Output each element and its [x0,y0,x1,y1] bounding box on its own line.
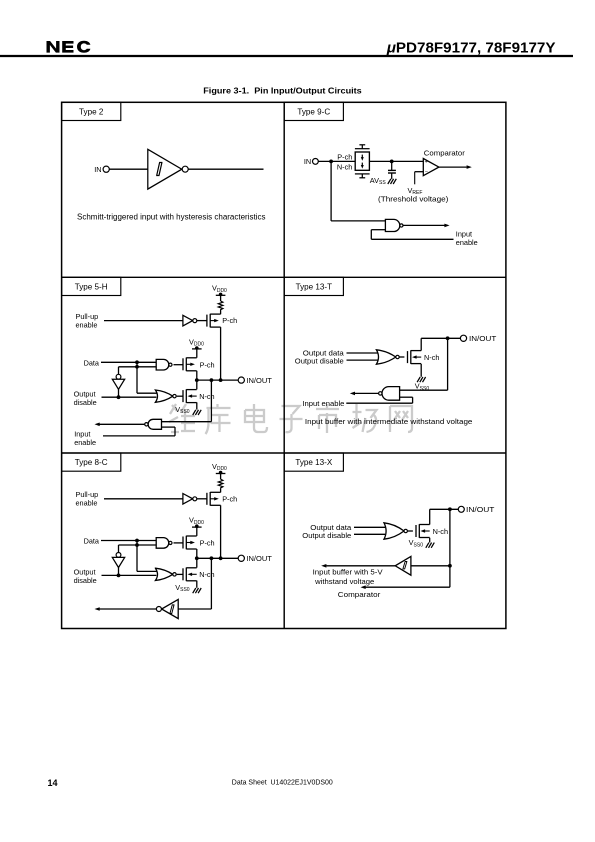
svg-text:Schmitt-triggered input with h: Schmitt-triggered input with hysteresis … [77,213,266,222]
svg-text:enable: enable [74,438,96,447]
svg-text:Type 2: Type 2 [79,107,104,116]
schmitt inverter U5 (8-C) [162,599,179,618]
wire NOR to gate (13-X) [408,530,413,532]
svg-text:μPD78F9177, 78F9177Y: μPD78F9177, 78F9177Y [386,39,556,56]
junction IN/OUT a (5-H) [195,378,199,382]
wire N-ch drain up (8-C) [196,558,198,567]
svg-text:AVSS: AVSS [370,176,387,186]
wire Data branch down (5-H) [136,362,138,393]
svg-text:P-ch: P-ch [200,539,215,548]
svg-text:Input buffer with intermediate: Input buffer with intermediate withstand… [305,417,473,426]
wire N-ch drain up (5-H) [196,380,198,389]
junction IN/OUT b (8-C) [210,556,214,560]
transistor N-ch (13-X) [416,524,430,538]
table column divider [283,102,285,628]
resistor R1 (5-H) [218,301,223,311]
ground VSS0 (5-H) [193,410,202,415]
wire VDD0 to P-ch (5-H) [196,349,198,358]
wire NOR upper input (8-C) [137,570,157,572]
wire inverter-out to NAND (8-C) [119,544,157,546]
figure table outer border [62,102,506,628]
junction Data (5-H) [135,360,139,364]
schmitt inverter U1 (Type 2) [148,149,182,189]
svg-text:P-ch: P-ch [337,152,352,161]
nand gate U2 enable (13-T) [382,387,400,401]
wire comparator input (13-X) [411,565,450,567]
transistor N-ch (13-T) [408,350,422,364]
transistor P-ch data (5-H) [183,358,197,372]
svg-text:Type 8-C: Type 8-C [75,458,108,467]
svg-text:Comparator: Comparator [424,148,466,157]
wire IN/OUT line (13-X) [430,508,459,510]
transistor N-ch (5-H) [183,389,197,403]
svg-text:IN: IN [94,165,101,174]
wire NAND output (13-T) [355,392,379,394]
junction Data (8-C) [135,539,139,543]
wire resistor to P-ch (5-H) [220,311,222,315]
wire IN/OUT branch down (13-T) [447,338,449,390]
ground (13-T) [417,377,426,382]
svg-text:P-ch: P-ch [200,360,215,369]
wire VDD0 to P-ch (8-C) [196,527,198,536]
wire NAND output [403,224,445,226]
capacitor C1 [388,161,396,179]
resistor R1 (8-C) [218,479,223,489]
wire comparator output [439,166,467,168]
gate symbol below switch box [355,174,370,178]
svg-text:N-ch: N-ch [199,570,214,579]
wire VREF input [415,171,424,173]
wire IN/OUT branch down (13-X) [449,509,451,587]
wire NAND out to gate (8-C) [174,542,184,544]
svg-text:Type 9-C: Type 9-C [297,107,330,116]
ground VSS0 (8-C) [193,588,202,593]
svg-text:(Threshold voltage): (Threshold voltage) [378,195,449,204]
junction IN/OUT c (5-H) [219,378,223,382]
wire inverter-out to NAND (5-H) [119,366,157,368]
inverter U1 (8-C) [183,494,193,505]
svg-text:14: 14 [48,778,58,788]
junction on IN line [329,160,333,164]
svg-text:Data: Data [84,537,100,546]
gate symbol above switch box [355,145,370,149]
cell label box Type 5-H [62,277,121,295]
junction comparator input (13-X) [448,564,452,568]
junction IN/OUT b (5-H) [210,378,214,382]
svg-text:disable: disable [74,398,97,407]
svg-text:Type 13-X: Type 13-X [295,458,332,467]
NEC logo [47,41,91,53]
comparator U2 schmitt (13-X) [395,556,411,575]
svg-text:Input buffer with 5-V: Input buffer with 5-V [313,568,383,577]
svg-text:IN/OUT: IN/OUT [469,334,497,343]
VDD0 terminal pull-up (5-H) [216,293,226,297]
svg-text:Figure 3-1. Pin Input/Output: Figure 3-1. Pin Input/Output Circuits [203,85,362,95]
nor gate U4 (8-C) [155,568,172,580]
wire output disable (13-T) [347,359,378,361]
svg-text:IN/OUT: IN/OUT [466,505,495,514]
wire NOR out to gate (8-C) [177,573,183,575]
node IN/OUT (8-C) [238,555,244,561]
wire IN/OUT branch down (8-C) [210,558,212,609]
junction IN/OUT (13-X) [448,507,452,511]
svg-text:Comparator: Comparator [338,590,381,599]
svg-text:VDD0: VDD0 [212,462,227,472]
junction inverter branch (8-C) [135,543,139,547]
wire NAND5 output (5-H) [100,423,145,425]
svg-text:Output disable: Output disable [295,357,344,366]
nand gate U2 (5-H) [156,359,169,370]
pull-up transistor P-ch (8-C) [207,492,221,506]
wire source to ground (13-X) [429,538,431,543]
svg-text:VDD0: VDD0 [189,338,204,348]
VDD0 terminal data (8-C) [192,524,202,528]
svg-text:disable: disable [74,576,97,585]
wire IN/OUT line (8-C) [197,557,238,559]
svg-text:Data Sheet U14022EJ1V0DS00: Data Sheet U14022EJ1V0DS00 [232,780,333,787]
nand gate U3 (Type 9-C) [385,219,399,231]
svg-text:P-ch: P-ch [222,494,237,503]
svg-text:Input enable: Input enable [302,399,344,408]
svg-text:VDD0: VDD0 [189,516,204,526]
svg-text:N-ch: N-ch [337,162,352,171]
inverter U1 (5-H) [183,315,193,326]
junction output disable (5-H) [117,395,121,399]
svg-text:withstand voltage: withstand voltage [314,577,374,586]
node IN/OUT (13-T) [460,335,466,341]
pull-up transistor P-ch (5-H) [207,314,221,328]
table row divider 1 [62,276,506,278]
svg-text:enable: enable [76,320,98,329]
wire drain up (13-X) [429,509,431,524]
svg-text:IN: IN [304,157,311,166]
inverter U3 vertical (5-H) [116,374,121,379]
wire branch to NAND [331,220,385,222]
cell label box Type 8-C [62,453,121,471]
wire IN to inverter [109,168,148,170]
wire to schmitt input (8-C) [178,608,211,610]
wire IN/OUT line (13-T) [421,337,460,339]
analog switch box Q1 P-ch/N-ch [355,152,369,170]
svg-text:IN/OUT: IN/OUT [246,554,272,563]
wire source to ground (13-T) [420,364,422,377]
wire output disable (13-X) [354,533,385,535]
wire Data branch down (8-C) [136,541,138,572]
wire NAND out to gate (5-H) [174,364,184,366]
wire pull-up enable (8-C) [104,498,183,500]
cell label box Type 13-T [284,277,343,295]
transistor P-ch data (8-C) [183,536,197,550]
wire output data (13-X) [354,526,385,528]
junction inverter branch (5-H) [135,365,139,369]
wire IN/OUT line (5-H) [197,379,238,381]
wire inverter to gate (8-C) [197,498,207,500]
svg-text:VSS0: VSS0 [409,538,424,548]
svg-text:IN/OUT: IN/OUT [246,376,272,385]
wire P-ch drain down (5-H) [196,371,198,380]
wire P-ch drain down (8-C) [196,549,198,558]
node IN/OUT (5-H) [238,377,244,383]
wire VDD0 to resistor (5-H) [220,295,222,301]
wire NAND lower input (13-T) [400,396,413,398]
wire NAND5 lower input (5-H) [162,426,176,428]
junction at capacitor [390,160,394,164]
junction IN/OUT (13-T) [446,336,450,340]
VDD0 terminal data (5-H) [192,346,202,350]
svg-text:enable: enable [76,499,98,508]
svg-text:Type 13-T: Type 13-T [296,282,332,291]
wire to NAND top input (13-T) [400,389,448,391]
wire IN/OUT branch down (5-H) [210,380,212,422]
nand gate U5 enable (5-H) [148,419,161,429]
svg-text:−: − [425,169,428,175]
nor gate U1 (13-X) [384,523,404,539]
svg-text:Output disable: Output disable [302,531,351,540]
svg-text:N-ch: N-ch [433,527,448,536]
junction output disable (8-C) [117,574,121,578]
comparator U2 [423,159,439,176]
wire output disable (5-H) [102,396,157,398]
transistor N-ch (8-C) [183,568,197,582]
cell label box Type 13-X [284,453,343,471]
wire Data (5-H) [101,361,156,363]
wire bottom return (13-X) [366,586,450,588]
wire N-ch source to ground (8-C) [196,581,198,588]
wire pull-up enable (5-H) [104,320,183,322]
ground AVSS [388,179,397,184]
junction IN/OUT c (8-C) [219,556,223,560]
wire IN branch down [330,161,332,221]
wire NOR to gate (13-T) [399,356,404,358]
table row divider 2 [62,452,506,454]
cell label box Type 9-C [284,102,343,120]
ground (13-X) [426,543,435,548]
svg-text:+: + [425,160,428,166]
wire output disable (8-C) [102,574,157,576]
wire pull-up drain down (8-C) [220,505,222,558]
wire VDD0 to resistor (8-C) [220,474,222,480]
wire inverter to output-disable line (8-C) [118,568,120,576]
wire inverter output [188,168,263,170]
wire resistor to P-ch (8-C) [220,489,222,493]
wire switch box to comparator [369,160,423,162]
header rule [0,55,573,57]
wire inverter to gate (5-H) [197,320,207,322]
nor gate U4 (5-H) [155,390,172,402]
svg-text:Type 5-H: Type 5-H [75,282,108,291]
wire output data (13-T) [347,352,378,354]
node IN/OUT (13-X) [458,506,464,512]
wire Data (8-C) [101,540,156,542]
svg-text:P-ch: P-ch [222,316,237,325]
wire NOR out to gate (5-H) [177,395,183,397]
wire N-ch source to ground (5-H) [196,402,198,409]
wire comparator output (13-X) [326,565,395,567]
svg-text:N-ch: N-ch [199,392,214,401]
wire schmitt output (8-C) [100,608,157,610]
svg-text:N-ch: N-ch [424,353,439,362]
svg-text:VDD0: VDD0 [212,284,227,294]
svg-text:enable: enable [456,238,478,247]
VDD0 terminal pull-up (8-C) [216,471,226,475]
junction IN/OUT a (8-C) [195,556,199,560]
nand gate U2 (8-C) [156,538,169,549]
wire IN to switch box [318,160,355,162]
svg-text:VSS0: VSS0 [175,583,190,593]
svg-text:VSS0: VSS0 [175,405,190,415]
svg-text:Data: Data [84,358,100,367]
watermark text [169,404,412,434]
wire drain up (13-T) [420,338,422,350]
wire inverter to output-disable line (5-H) [118,389,120,397]
cell label box Type 2 [62,102,121,120]
wire NAND lower input [371,229,385,231]
wire to NAND top input (5-H) [162,421,212,423]
inverter U3 vertical (8-C) [116,553,121,558]
wire pull-up drain down (5-H) [220,327,222,380]
wire NOR upper input (5-H) [137,392,157,394]
nor gate U1 (13-T) [376,350,395,364]
